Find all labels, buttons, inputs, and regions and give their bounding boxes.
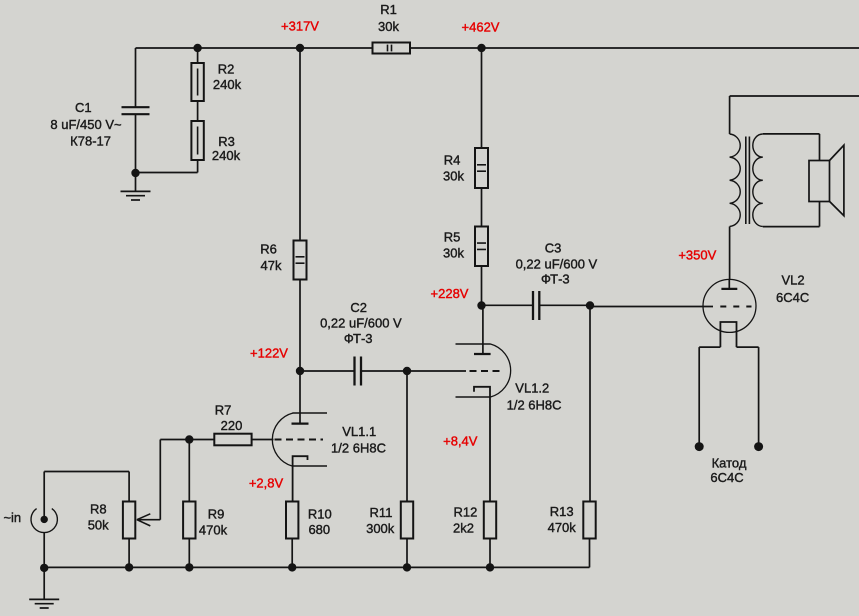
- svg-text:30k: 30k: [443, 246, 464, 261]
- tube VL2 filament: [720, 322, 736, 347]
- svg-text:R8: R8: [90, 501, 107, 516]
- node +462V junction: [477, 44, 485, 52]
- resistor R3: [191, 121, 203, 160]
- wire C2 to grid node: [361, 370, 407, 372]
- label VL1.2: [507, 381, 562, 413]
- input jack ~in: [31, 472, 57, 533]
- wire C3 to R13/grid node: [539, 304, 590, 306]
- voltage label +317V: [281, 19, 319, 34]
- speaker: [809, 145, 844, 216]
- label C2 value: [320, 300, 402, 346]
- wire R4 to R5: [481, 188, 483, 227]
- wire node to C2: [300, 370, 355, 372]
- wire +462V to R4: [481, 48, 483, 148]
- resistor R5: [475, 227, 488, 267]
- svg-text:+2,8V: +2,8V: [249, 476, 284, 491]
- svg-text:+462V: +462V: [462, 19, 500, 34]
- node C1/R3 junction: [131, 169, 139, 177]
- wire jack bottom: [43, 533, 45, 568]
- label R8 value: [88, 501, 109, 532]
- label R1 value: [378, 2, 399, 34]
- voltage label +350V: [678, 248, 716, 263]
- svg-text:+228V: +228V: [431, 286, 469, 301]
- node C2/R11/grid junction: [403, 367, 411, 375]
- capacitor C1: [122, 107, 150, 114]
- transformer T1 primary winding: [730, 96, 741, 279]
- node R7/R9/wiper junction: [185, 435, 193, 443]
- resistor R6: [294, 241, 307, 280]
- wire R13 top drop: [589, 306, 591, 502]
- label R4 value: [443, 153, 464, 184]
- triode VL1.1 cathode: [293, 456, 308, 501]
- wire rail to R2: [197, 48, 199, 63]
- resistor R11: [401, 502, 413, 539]
- triode VL1.2 grid: [407, 370, 503, 372]
- svg-text:ФТ-3: ФТ-3: [541, 271, 570, 286]
- triode VL1.2 envelope: [456, 344, 511, 397]
- svg-text:Катод: Катод: [712, 456, 747, 471]
- svg-text:R5: R5: [444, 230, 461, 245]
- wire node to C3: [482, 304, 534, 306]
- svg-text:300k: 300k: [366, 521, 395, 536]
- svg-text:R1: R1: [380, 2, 397, 17]
- label C3 value: [516, 241, 598, 287]
- svg-text:1/2 6Н8С: 1/2 6Н8С: [507, 397, 562, 412]
- node input ground junction: [40, 564, 48, 572]
- voltage label +122V: [250, 345, 288, 360]
- triode VL1.2 anode: [474, 306, 491, 355]
- svg-text:470k: 470k: [199, 523, 228, 538]
- svg-text:50k: 50k: [88, 517, 109, 532]
- wire R8 bottom: [128, 539, 130, 568]
- label R13 value: [548, 504, 577, 535]
- resistor R10: [286, 502, 298, 539]
- svg-text:240k: 240k: [212, 148, 241, 163]
- triode VL1.2 cathode: [474, 387, 490, 502]
- node +317V junction: [296, 44, 304, 52]
- node +228V junction: [477, 301, 485, 309]
- wire jack to R8 top: [44, 472, 129, 502]
- wire C1 bottom: [135, 114, 137, 173]
- capacitor C2: [355, 357, 362, 386]
- resistor R1: [373, 43, 411, 54]
- svg-text:0,22 uF/600 V: 0,22 uF/600 V: [516, 257, 598, 272]
- svg-text:+317V: +317V: [281, 19, 319, 34]
- wire R12 bottom: [489, 539, 491, 568]
- tube VL2 envelope: [703, 279, 756, 332]
- node R8 rail junction: [125, 563, 133, 571]
- svg-text:8 uF/450 V~: 8 uF/450 V~: [50, 117, 122, 132]
- svg-text:~in: ~in: [3, 510, 21, 525]
- ground below C1: [121, 173, 151, 200]
- wire R11 bottom: [406, 539, 408, 568]
- wire filament right leg: [737, 347, 759, 447]
- voltage label +462V: [462, 19, 500, 34]
- node +122V junction: [296, 367, 304, 375]
- label R2 value: [213, 61, 242, 92]
- label R10 value: [308, 507, 332, 538]
- svg-text:240k: 240k: [213, 77, 242, 92]
- svg-text:+122V: +122V: [250, 345, 288, 360]
- svg-text:R9: R9: [208, 507, 225, 522]
- node R10 rail junction: [288, 563, 296, 571]
- resistor R9: [183, 502, 195, 539]
- svg-text:+8,4V: +8,4V: [443, 434, 478, 449]
- wire R6 to +122V node: [299, 280, 301, 372]
- svg-text:2k2: 2k2: [453, 521, 474, 536]
- svg-text:VL1.1: VL1.1: [342, 424, 376, 439]
- svg-text:R7: R7: [215, 403, 232, 418]
- label VL1.1: [331, 424, 386, 456]
- wire bottom ground rail: [44, 566, 589, 568]
- node junction R2 top: [193, 44, 201, 52]
- wire R10 bottom: [291, 539, 293, 568]
- node filament right terminal: [754, 442, 763, 451]
- tube VL2 grid: [590, 306, 752, 308]
- label R3 value: [212, 134, 241, 163]
- svg-text:30k: 30k: [378, 19, 399, 34]
- svg-text:680: 680: [308, 522, 330, 537]
- svg-text:К78-17: К78-17: [70, 134, 111, 149]
- triode VL1.1 anode: [292, 371, 309, 424]
- label R11 value: [366, 505, 395, 536]
- wire secondary top to speaker: [763, 134, 820, 161]
- resistor R12: [484, 502, 496, 539]
- wire R11 top drop: [406, 371, 408, 502]
- wire R5 to +228V node: [481, 266, 483, 306]
- svg-text:1/2 6Н8С: 1/2 6Н8С: [331, 441, 386, 456]
- wire top supply rail: [136, 47, 859, 49]
- transformer T1 secondary winding: [753, 134, 763, 226]
- svg-text:220: 220: [221, 418, 243, 433]
- wire filament left leg: [699, 347, 720, 447]
- wire R9 bottom: [188, 539, 190, 568]
- label C1 value: [50, 100, 122, 149]
- svg-text:6С4С: 6С4С: [776, 290, 809, 305]
- triode VL1.1 grid: [252, 439, 323, 441]
- tube VL2 anode: [721, 279, 737, 289]
- voltage label +2,8V: [249, 476, 284, 491]
- resistor R4: [475, 148, 488, 188]
- capacitor C3: [533, 291, 539, 320]
- svg-text:30k: 30k: [443, 169, 464, 184]
- wire R9 top drop: [188, 440, 190, 502]
- wire R13 bottom: [589, 539, 591, 568]
- svg-text:470k: 470k: [548, 520, 577, 535]
- transformer T1 core: [746, 137, 750, 225]
- potentiometer R8: [123, 502, 135, 539]
- svg-text:R3: R3: [218, 134, 235, 149]
- svg-text:R11: R11: [370, 505, 393, 520]
- svg-text:C3: C3: [545, 241, 562, 256]
- node filament left terminal: [695, 442, 704, 451]
- resistor R13: [583, 502, 595, 539]
- node R12 rail junction: [486, 563, 494, 571]
- label cathode 6C4C: [710, 456, 746, 486]
- potentiometer R8 wiper arrow: [137, 514, 160, 526]
- svg-text:R13: R13: [550, 504, 574, 519]
- label R7 value: [215, 403, 243, 434]
- svg-text:0,22 uF/600 V: 0,22 uF/600 V: [320, 316, 402, 331]
- svg-text:R12: R12: [453, 505, 477, 520]
- label R6 value: [260, 242, 282, 273]
- svg-text:VL2: VL2: [782, 272, 805, 287]
- resistor R2: [191, 63, 203, 101]
- label R12 value: [453, 505, 477, 536]
- node R11 rail junction: [403, 563, 411, 571]
- label VL2: [776, 272, 809, 305]
- wire node to R7: [189, 439, 214, 441]
- ground below input: [29, 568, 59, 608]
- wire secondary bottom to speaker: [763, 201, 820, 226]
- svg-text:+350V: +350V: [678, 248, 716, 263]
- svg-text:C1: C1: [75, 100, 92, 115]
- svg-text:R10: R10: [308, 507, 332, 522]
- label R5 value: [443, 230, 464, 261]
- svg-text:R4: R4: [444, 153, 461, 168]
- svg-text:C2: C2: [350, 300, 367, 315]
- wire rail feed to transformer: [730, 95, 859, 97]
- svg-text:R6: R6: [260, 242, 277, 257]
- voltage label +8,4V: [443, 434, 478, 449]
- node C3/R13/VL2-grid junction: [586, 301, 594, 309]
- label R9 value: [199, 507, 228, 538]
- voltage label +228V: [431, 286, 469, 301]
- resistor R7: [214, 434, 251, 446]
- wire C1 to R3 bottom: [136, 160, 198, 173]
- svg-text:ФТ-3: ФТ-3: [344, 331, 373, 346]
- svg-text:VL1.2: VL1.2: [515, 381, 549, 396]
- wire +317V to R6: [299, 48, 301, 241]
- triode VL1.1 envelope: [272, 413, 327, 466]
- svg-text:47k: 47k: [261, 258, 282, 273]
- svg-text:6С4С: 6С4С: [710, 470, 743, 485]
- wire C1 top drop: [135, 48, 137, 107]
- label ~in: [3, 510, 21, 525]
- wire wiper to R7 node: [160, 440, 189, 520]
- wire R2 to R3: [197, 101, 199, 121]
- svg-text:R2: R2: [218, 61, 235, 76]
- node R9 rail junction: [185, 563, 193, 571]
